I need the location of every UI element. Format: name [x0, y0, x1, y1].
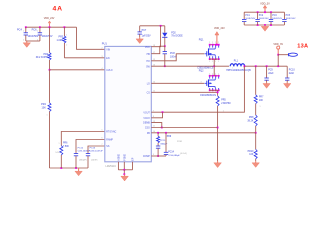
power port VDD_3V (output) — [273, 43, 283, 55]
svg-text:PC2: PC2 — [259, 15, 264, 17]
svg-text:70v DIODE: 70v DIODE — [171, 36, 183, 38]
svg-text:VDD_24V: VDD_24V — [44, 17, 55, 20]
pin names right side (VCC HB HO SW LO CS VOUT VCCX DEMB CSG FB COMP) — [143, 47, 151, 158]
svg-text:PR10: PR10 — [248, 151, 254, 153]
wire COMP run — [151, 154, 166, 156]
svg-text:RT/SYNC: RT/SYNC — [106, 132, 116, 134]
svg-text:HB: HB — [147, 54, 151, 56]
pin names left side (VIN EN UVLO RT/SYNC RAMP SS) — [106, 49, 116, 148]
svg-text:13A: 13A — [297, 44, 308, 50]
node comp branch on FB — [157, 132, 159, 134]
svg-text:4A: 4A — [53, 6, 64, 13]
svg-text:SS: SS — [106, 146, 110, 148]
svg-text:3300pF: 3300pF — [160, 144, 168, 146]
resistor PR10 (FB bottom) — [248, 133, 258, 161]
svg-text:10UF/50V: 10UF/50V — [28, 35, 39, 38]
svg-text:PQ1: PQ1 — [199, 38, 204, 41]
wire VCC rail (top of boot circuit) — [140, 25, 165, 27]
wire output node — [245, 65, 288, 67]
svg-text:2: 2 — [66, 45, 67, 47]
node bank tap 3 top — [270, 11, 272, 13]
svg-text:2: 2 — [212, 73, 213, 75]
node bank gnd — [264, 24, 266, 26]
wire SW down to PQ2 drain — [213, 66, 215, 76]
pin numbers right side — [153, 45, 155, 133]
node PC9 tap — [266, 65, 268, 67]
capacitor PC13 22nF (SS) — [86, 147, 104, 168]
svg-text:2: 2 — [218, 42, 219, 44]
wire cap bank bottom rail — [244, 24, 284, 26]
svg-text:C0G,0.047uF: C0G,0.047uF — [90, 151, 104, 153]
svg-text:17: 17 — [153, 52, 155, 54]
wire PGND stub — [123, 162, 125, 170]
capacitor PC7 1uF/25V (VCC bypass) — [138, 26, 152, 38]
wire CSG run — [151, 127, 217, 129]
resistor PR3 1 MOHM (EN pull-up) — [57, 27, 68, 58]
svg-text:1: 1 — [23, 31, 24, 33]
svg-text:VDD_24V: VDD_24V — [214, 27, 225, 30]
svg-text:VIN: VIN — [106, 49, 110, 51]
ground cap bank — [261, 25, 269, 31]
power port VDD_24V (input) — [44, 17, 55, 27]
svg-text:PR5: PR5 — [221, 99, 226, 101]
svg-text:39.2 KOHM: 39.2 KOHM — [36, 56, 49, 59]
wire HB jog — [151, 46, 165, 54]
capacitor PC6 10UF/50V — [32, 27, 53, 41]
svg-text:6: 6 — [102, 138, 103, 140]
wire VDD_24V top rail — [26, 26, 77, 28]
svg-text:3: 3 — [102, 56, 103, 58]
label 13A current annotation — [297, 44, 308, 50]
ground power stage — [214, 161, 222, 168]
node RT resistor bottom — [60, 167, 62, 169]
svg-text:1: 1 — [212, 61, 213, 63]
node CSG tap — [217, 127, 219, 129]
ground input caps — [23, 41, 30, 47]
svg-text:1: 1 — [59, 143, 60, 145]
transistor Q1 PQ1 CSD19506KCS (high-side) — [197, 38, 219, 69]
svg-text:2: 2 — [212, 42, 213, 44]
svg-text:1uF/25V: 1uF/25V — [142, 35, 151, 38]
node CS tap — [217, 91, 219, 93]
resistor PR2 39.2 KOHM (UVLO top) — [36, 27, 51, 70]
connector output (oval pin) — [289, 53, 298, 56]
wire UVLO to IC — [50, 68, 105, 70]
svg-text:VCCX: VCCX — [143, 118, 150, 120]
svg-text:2: 2 — [23, 39, 24, 41]
wire RT/SYNC to IC — [61, 132, 105, 146]
label 4A current annotation — [53, 6, 64, 13]
node VCCX join — [162, 111, 164, 113]
svg-text:19: 19 — [153, 59, 155, 61]
svg-text:2: 2 — [218, 73, 219, 75]
wire AGND stub — [117, 162, 119, 170]
transistor Q2 PQ2 CSD19506KCS (low-side) — [199, 70, 220, 97]
node PC6 tap — [39, 26, 41, 28]
capacitor bank PC1 PC2 PC3 PC5 10UF/16V — [242, 12, 296, 25]
ground IC bottom — [121, 174, 129, 181]
node UVLO tap — [49, 69, 51, 71]
wire VOUT sense — [151, 66, 244, 112]
svg-text:PR8: PR8 — [249, 117, 254, 119]
svg-text:PC7: PC7 — [142, 29, 147, 32]
svg-text:10UF/50V: 10UF/50V — [42, 35, 53, 38]
svg-text:8: 8 — [153, 116, 154, 118]
capacitor PC8 100nF (bootstrap) — [163, 46, 178, 66]
node PR3 tap — [64, 26, 66, 28]
wire VCCX jog — [151, 112, 162, 118]
wire PQ2 source chain — [217, 90, 219, 96]
wire SW net — [151, 65, 229, 67]
node comp to COMP pin — [157, 155, 159, 157]
svg-text:UVLO: UVLO — [106, 70, 112, 72]
svg-text:5.1K: 5.1K — [55, 152, 60, 154]
svg-text:RAMP: RAMP — [106, 139, 113, 142]
pin numbers left bottom side — [102, 130, 103, 147]
svg-text:10UF/16V: 10UF/16V — [272, 18, 282, 20]
node FB tap — [255, 132, 257, 134]
ground FB divider — [252, 161, 259, 167]
resistor PR9 (comp) — [157, 133, 183, 146]
svg-text:PC5: PC5 — [286, 15, 291, 17]
svg-text:PR6: PR6 — [63, 143, 68, 145]
wire CS to PQ2 source — [151, 91, 217, 93]
svg-text:PC10: PC10 — [289, 70, 296, 72]
svg-text:4: 4 — [102, 68, 103, 70]
wire cap bank top rail — [244, 11, 284, 13]
svg-text:(10nF): (10nF) — [91, 160, 98, 162]
svg-text:PL1: PL1 — [234, 61, 239, 63]
svg-text:1: 1 — [215, 61, 216, 63]
svg-text:22uF: 22uF — [289, 73, 295, 75]
svg-text:PC4: PC4 — [17, 29, 22, 32]
resistor PR5 current sense — [216, 96, 230, 161]
node VDD_24V tap — [49, 26, 51, 28]
svg-text:10UF/16V: 10UF/16V — [259, 18, 269, 20]
svg-text:AGND: AGND — [117, 154, 120, 161]
svg-text:2: 2 — [215, 42, 216, 44]
wire VCC pin riser — [151, 26, 160, 47]
svg-text:10K: 10K — [249, 154, 254, 156]
svg-text:10K: 10K — [259, 100, 264, 102]
svg-text:EP: EP — [133, 157, 135, 161]
wire input caps bottom link — [26, 40, 40, 42]
svg-text:FB: FB — [147, 133, 150, 135]
svg-text:HO: HO — [146, 61, 150, 63]
svg-text:2: 2 — [209, 73, 210, 75]
svg-text:HPPC1040D-R56M-QB: HPPC1040D-R56M-QB — [226, 70, 251, 72]
power port VDD_3V (cap bank) — [260, 3, 270, 13]
svg-text:PC13: PC13 — [90, 147, 96, 149]
svg-text:VOUT: VOUT — [143, 112, 150, 114]
svg-text:1: 1 — [260, 106, 261, 108]
node VOUT sense riser — [244, 65, 246, 67]
svg-text:CSD19506KCS: CSD19506KCS — [200, 95, 216, 97]
svg-text:COMP: COMP — [143, 156, 150, 158]
svg-text:PQ2: PQ2 — [199, 70, 204, 73]
svg-text:PC11: PC11 — [160, 140, 166, 142]
wire SS to IC — [88, 146, 105, 152]
wire FB run — [151, 132, 255, 134]
wire HO to PQ1 gate — [151, 54, 204, 61]
svg-text:1: 1 — [37, 31, 38, 33]
svg-text:10K: 10K — [42, 106, 47, 109]
capacitor PC14 680pF (comp hf) — [164, 133, 187, 157]
svg-text:PC1: PC1 — [245, 15, 250, 17]
node RAMP cap bottom — [75, 167, 77, 169]
node bank tap 3 bottom — [270, 24, 272, 26]
svg-text:VDD_3V: VDD_3V — [273, 43, 283, 46]
capacitor PC12 1000pF (RAMP) — [74, 147, 91, 168]
svg-text:PC14: PC14 — [168, 151, 174, 153]
svg-text:CS: CS — [147, 92, 151, 94]
wire DEMB jog — [151, 123, 162, 128]
node IC ground node — [123, 173, 125, 175]
node bank tap 2 bottom — [257, 24, 259, 26]
svg-text:PGND: PGND — [124, 154, 126, 161]
wire EP stub — [132, 162, 134, 170]
capacitor PC10 22uF (output) — [285, 66, 295, 82]
node bank tap 2 top — [257, 11, 259, 13]
svg-text:1: 1 — [209, 61, 210, 63]
resistor PR8 39.2K (FB mid) — [247, 115, 257, 133]
ground bottom-left rail — [75, 168, 82, 176]
svg-text:PR7: PR7 — [259, 97, 264, 99]
op-amp U1 body (controller PU1 LM25116) — [102, 42, 152, 169]
ground PC9 — [263, 83, 270, 89]
svg-text:(330pF): (330pF) — [79, 160, 87, 162]
resistor PR7 (FB top) — [254, 66, 264, 115]
svg-text:1: 1 — [47, 115, 48, 117]
svg-text:5: 5 — [102, 130, 103, 132]
diode PD2 (bootstrap) — [162, 26, 183, 46]
capacitor PC9 22uF (output) — [264, 66, 274, 82]
svg-text:11: 11 — [153, 126, 155, 128]
svg-text:16: 16 — [153, 64, 155, 66]
svg-text:PR9: PR9 — [167, 136, 172, 138]
node VCC riser — [160, 25, 162, 27]
resistor PR6 (RT) — [55, 143, 69, 168]
svg-text:PC12: PC12 — [78, 147, 84, 149]
node FB divider top — [255, 65, 257, 67]
node VDD feed on drain bus — [216, 44, 218, 46]
wire PQ1 source down to SW — [213, 59, 215, 66]
svg-text:COG,680pF: COG,680pF — [168, 155, 180, 157]
svg-text:4: 4 — [201, 81, 202, 83]
wire EN to IC — [64, 56, 104, 58]
node DEMB join — [161, 127, 163, 129]
svg-text:1.00M: 1.00M — [57, 39, 64, 42]
svg-text:VCC: VCC — [145, 47, 150, 49]
svg-text:14: 14 — [153, 82, 155, 84]
svg-text:39.2K: 39.2K — [247, 120, 253, 122]
node PC4 tap — [25, 26, 27, 28]
svg-text:2 MOHM: 2 MOHM — [221, 103, 230, 105]
svg-text:CSG: CSG — [145, 128, 150, 130]
svg-text:7.50K: 7.50K — [63, 146, 69, 148]
node output tee — [277, 54, 279, 56]
svg-text:13: 13 — [153, 121, 155, 123]
wire LO to PQ2 gate — [151, 81, 204, 83]
node HB boot node — [164, 45, 166, 47]
wire VDD_3V riser — [277, 55, 279, 66]
wire bottom pins link — [118, 169, 132, 171]
svg-text:PC9: PC9 — [268, 70, 273, 72]
svg-text:PD2: PD2 — [171, 32, 176, 34]
svg-text:LO: LO — [147, 83, 150, 85]
capacitor PC11 3300pF (comp) — [156, 140, 168, 156]
svg-text:10UF/16V: 10UF/16V — [286, 18, 296, 20]
svg-text:270R: 270R — [177, 141, 182, 143]
wire RAMP to IC — [76, 140, 105, 153]
power port VDD_24V (power stage) — [214, 27, 225, 45]
wire PGND down — [123, 170, 125, 174]
svg-text:LM25116: LM25116 — [106, 165, 117, 168]
ground PC7 — [136, 37, 143, 43]
svg-text:12: 12 — [153, 91, 155, 93]
svg-text:1: 1 — [218, 61, 219, 63]
capacitor PC4 10UF/50V — [17, 27, 39, 41]
svg-text:10UF/16V: 10UF/16V — [245, 18, 255, 20]
ground PC10 — [284, 83, 291, 89]
svg-text:7: 7 — [153, 110, 154, 112]
svg-text:2: 2 — [215, 73, 216, 75]
svg-text:18: 18 — [153, 45, 155, 47]
pin names bottom (AGND PGND EP) — [117, 154, 134, 161]
svg-text:(4.7nF): (4.7nF) — [180, 153, 187, 155]
svg-text:PC3: PC3 — [272, 15, 277, 17]
inductor PL1 HPPC1040D — [226, 61, 251, 72]
node VDD_3V riser — [277, 65, 279, 67]
svg-text:2: 2 — [102, 47, 103, 49]
svg-text:1: 1 — [66, 34, 67, 36]
svg-text:9: 9 — [153, 154, 154, 156]
svg-text:2: 2 — [209, 42, 210, 44]
svg-text:7: 7 — [102, 144, 103, 146]
resistor PR4 10K (UVLO bottom) — [41, 70, 51, 168]
node comp hf branch on FB — [165, 132, 167, 134]
wire to output connector — [278, 54, 288, 56]
node bank feed — [264, 11, 266, 13]
node PC8 to SW — [164, 65, 166, 67]
svg-text:PU1: PU1 — [102, 42, 108, 46]
svg-text:10: 10 — [153, 131, 155, 133]
svg-text:22uF: 22uF — [268, 73, 274, 75]
svg-text:DEMB: DEMB — [143, 123, 150, 125]
node PGND join — [123, 169, 125, 171]
svg-text:EN: EN — [106, 58, 110, 60]
wire analog ground rail (bottom left) — [50, 167, 89, 169]
node PQ1 source to SW — [213, 65, 215, 67]
wire VIN feed — [77, 27, 105, 49]
